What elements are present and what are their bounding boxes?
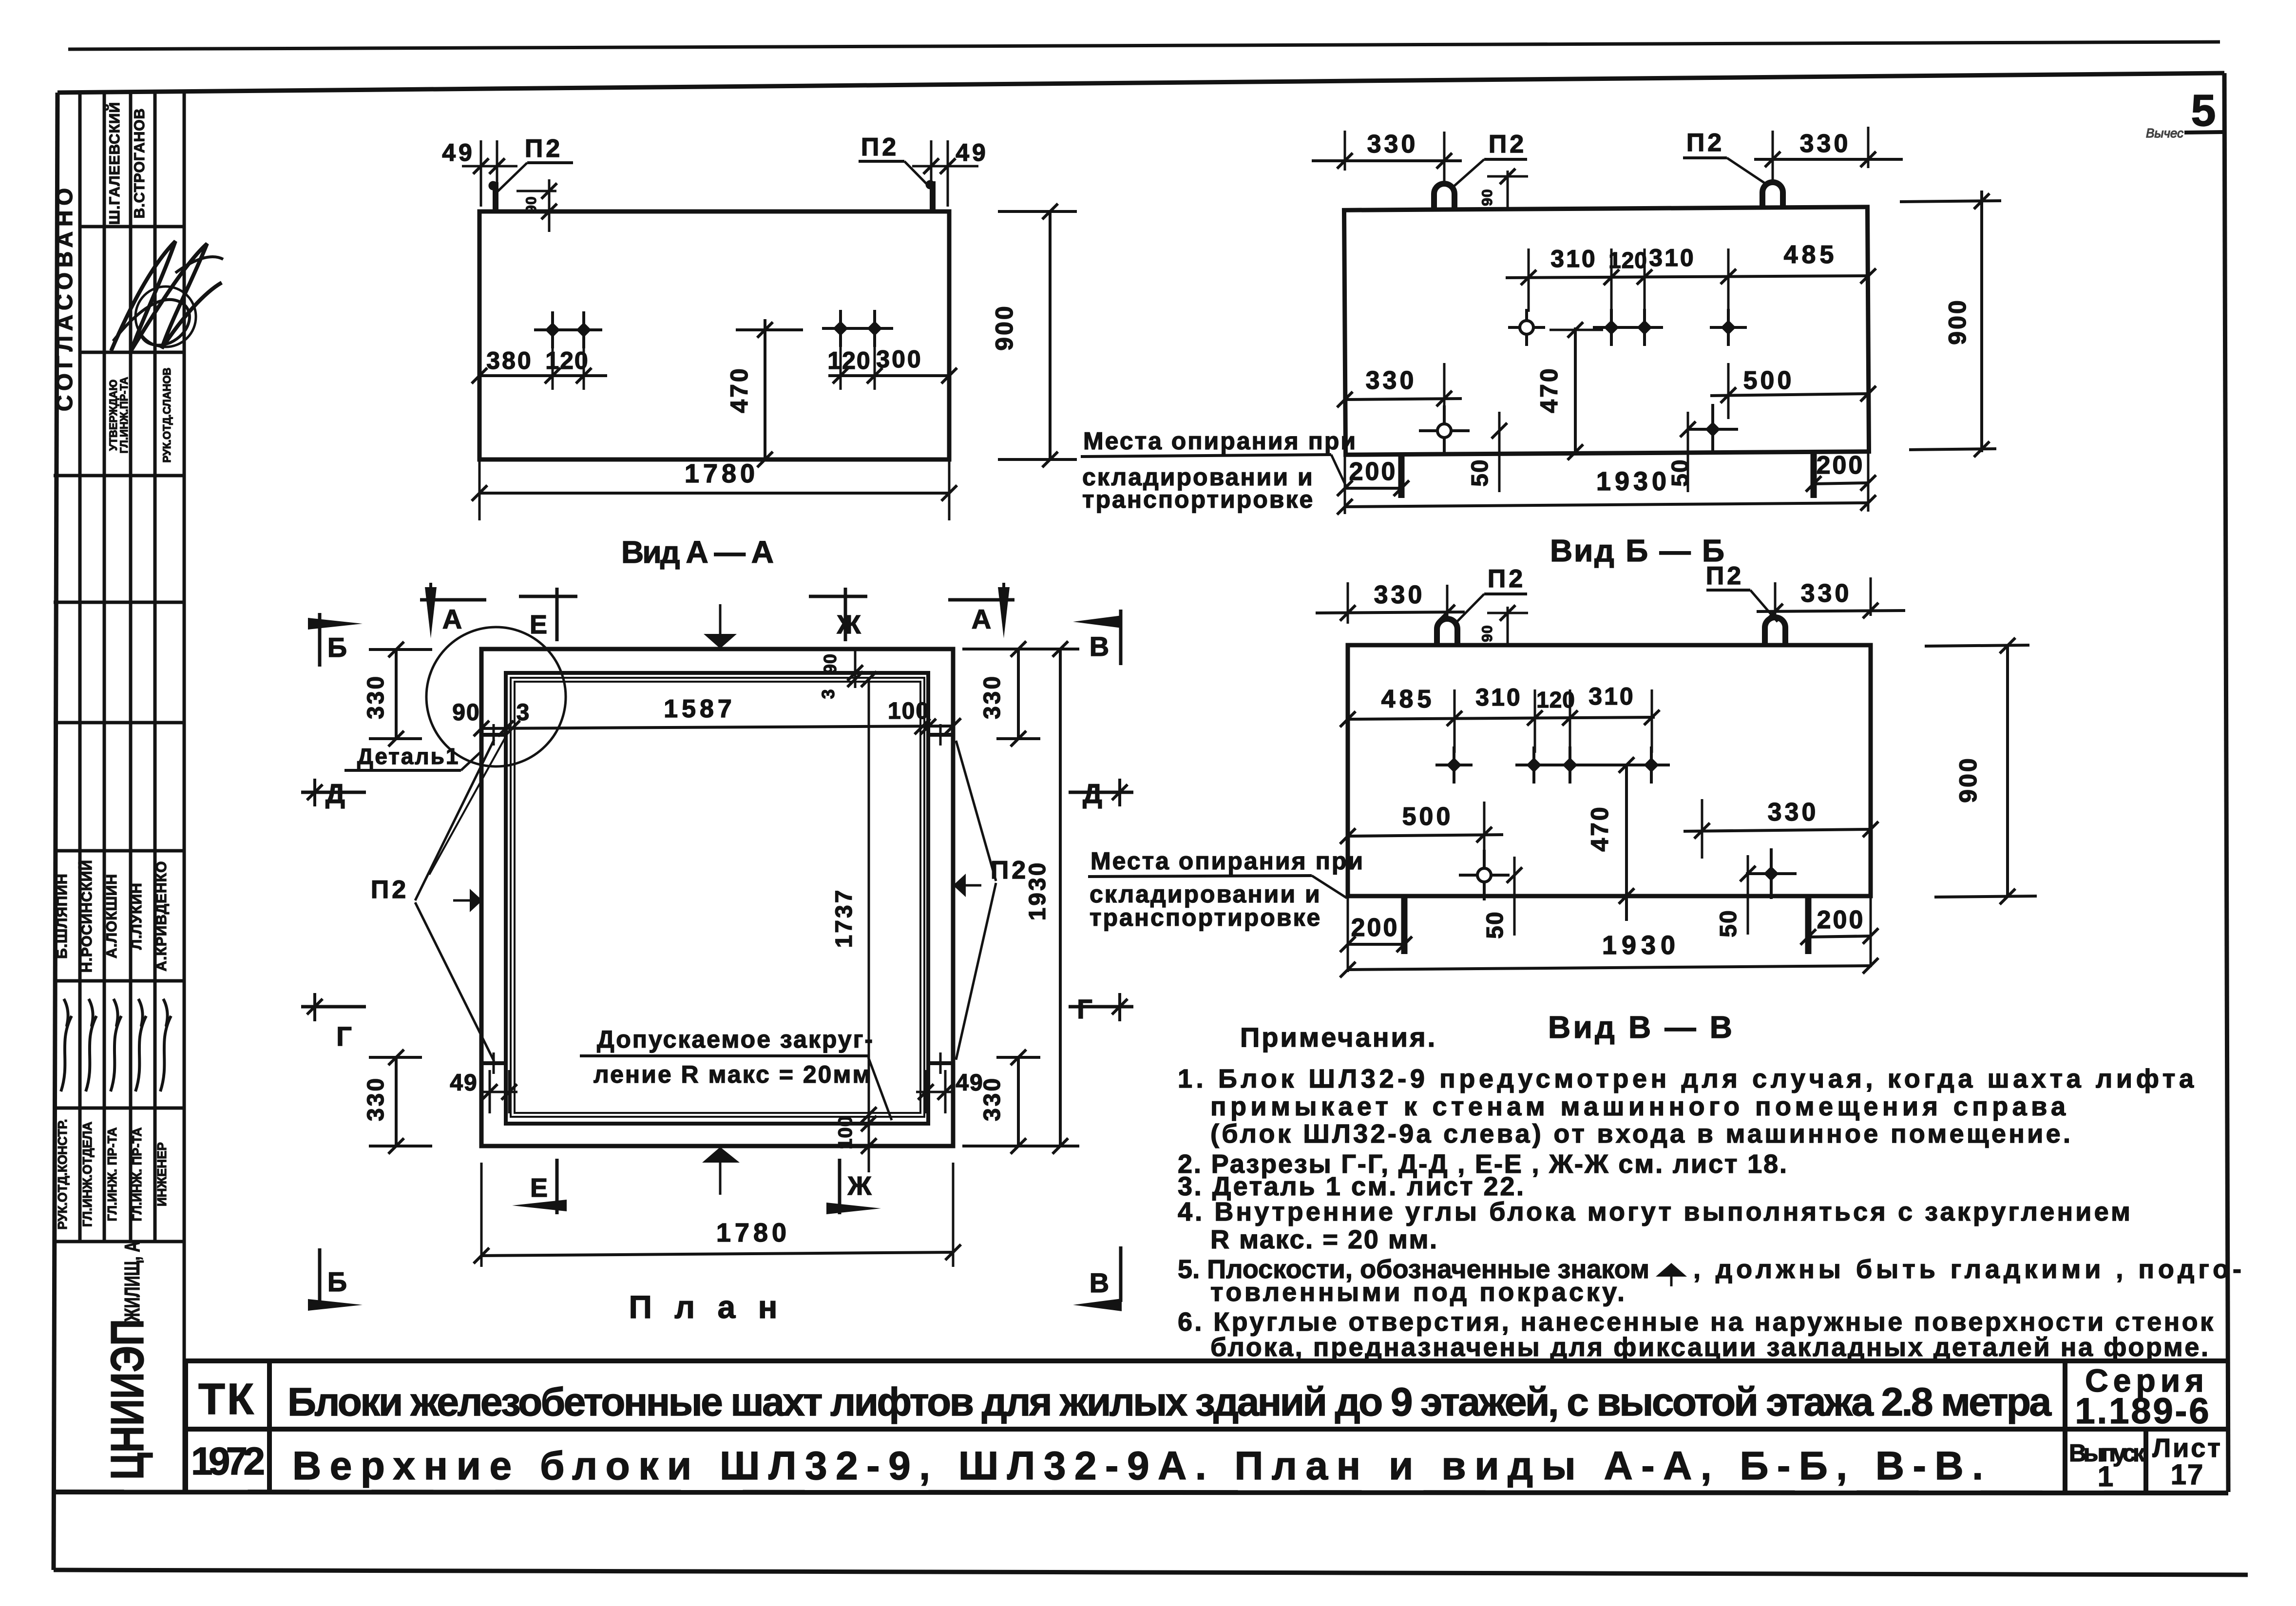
svg-text:470: 470 <box>726 366 753 413</box>
svg-text:100: 100 <box>888 698 930 724</box>
svg-text:П2: П2 <box>371 876 409 904</box>
В-В inner dim row 485/310/120/310 <box>1348 717 1655 719</box>
svg-text:500: 500 <box>1743 366 1795 395</box>
svg-text:310: 310 <box>1588 683 1635 710</box>
svg-text:200: 200 <box>1349 458 1397 486</box>
svg-text:ГЛ.ИНЖ. ПР-ТА: ГЛ.ИНЖ. ПР-ТА <box>105 1127 119 1221</box>
svg-text:1930: 1930 <box>1596 467 1670 496</box>
title block top line <box>186 1358 2228 1363</box>
В-В dim 330 top-right <box>1774 582 1777 616</box>
svg-text:Допускаемое закруг-: Допускаемое закруг- <box>597 1026 874 1053</box>
svg-text:120: 120 <box>545 347 589 374</box>
В-В dim 1930 bottom <box>1348 966 1871 970</box>
Б-Б dim 500 lower-right <box>1727 363 1730 419</box>
svg-text:470: 470 <box>1586 805 1613 851</box>
svg-text:А.КРИВДЕНКО: А.КРИВДЕНКО <box>153 861 170 972</box>
svg-text:Ж: Ж <box>847 1171 872 1201</box>
svg-text:ГЛ.ИНЖ. ПР-ТА: ГЛ.ИНЖ. ПР-ТА <box>130 1127 144 1221</box>
sheet bottom line <box>54 1570 2248 1575</box>
svg-text:РУК.ОТД.СЛАНОВ: РУК.ОТД.СЛАНОВ <box>161 368 173 463</box>
В-В support point left <box>1459 874 1510 877</box>
section mark В bottom-right <box>1119 1246 1123 1302</box>
svg-text:485: 485 <box>1784 241 1838 269</box>
svg-text:500: 500 <box>1402 803 1454 831</box>
frame left border <box>54 93 57 1570</box>
svg-text:200: 200 <box>1817 451 1865 479</box>
plan dim 1780 bottom <box>480 1163 483 1267</box>
В-В fixation crosses <box>1435 764 1473 766</box>
svg-text:300: 300 <box>876 345 922 373</box>
svg-text:3: 3 <box>818 688 838 699</box>
svg-text:330: 330 <box>1800 130 1851 158</box>
А-А fixation crosses left pair <box>534 328 571 331</box>
plan dim 330 left top <box>395 650 398 739</box>
В-В dim 900 right <box>2006 645 2009 896</box>
signature scribbles row <box>61 999 72 1091</box>
svg-text:П2: П2 <box>1706 562 1744 590</box>
svg-text:Деталь1: Деталь1 <box>357 744 460 769</box>
svg-text:Г: Г <box>336 1021 352 1052</box>
svg-text:ЦНИИЭП: ЦНИИЭП <box>101 1319 153 1480</box>
Б-Б support point left <box>1419 429 1470 432</box>
svg-text:Вычес: Вычес <box>2146 126 2183 140</box>
svg-text:Вид В — В: Вид В — В <box>1548 1010 1733 1045</box>
svg-text:310: 310 <box>1550 245 1597 272</box>
section mark Е bottom <box>555 1159 559 1214</box>
svg-text:1: 1 <box>2098 1461 2113 1492</box>
plan detail circle <box>426 627 566 766</box>
А-А lifting loop left <box>493 182 498 211</box>
svg-text:1972: 1972 <box>191 1439 265 1483</box>
svg-text:ГЛ.ИНЖ.ОТДЕЛА: ГЛ.ИНЖ.ОТДЕЛА <box>80 1122 95 1227</box>
А-А dim 900 right <box>1049 211 1052 459</box>
leader to liner corner <box>868 1057 892 1120</box>
svg-text:900: 900 <box>1954 756 1982 803</box>
В-В dim 330 right <box>1701 799 1703 859</box>
В-В dim 470 vertical <box>1625 765 1628 921</box>
svg-text:330: 330 <box>1366 366 1417 395</box>
svg-text:120: 120 <box>827 347 871 374</box>
Б-Б lifting loop right <box>1762 182 1783 207</box>
svg-text:ИНЖЕНЕР: ИНЖЕНЕР <box>154 1142 169 1206</box>
plan rotated dims 90/3 top right <box>854 649 857 688</box>
svg-text:товленными под покраску.: товленными под покраску. <box>1210 1278 1625 1307</box>
svg-text:330: 330 <box>1374 581 1425 609</box>
svg-text:П2: П2 <box>1488 565 1526 593</box>
Б-Б support point right <box>1687 428 1738 431</box>
section mark Б bottom-left <box>318 1248 322 1302</box>
svg-text:310: 310 <box>1649 244 1695 271</box>
svg-text:330: 330 <box>363 674 389 719</box>
leader to Б-Б corner <box>1331 455 1346 486</box>
В-В dim 50 left <box>1513 857 1516 936</box>
title block verticals <box>183 1361 188 1493</box>
svg-text:ление R макс = 20мм: ление R макс = 20мм <box>593 1061 872 1088</box>
Б-Б dim 330 top-left <box>1344 131 1346 171</box>
plan dim 49 bottom-right <box>916 1091 954 1093</box>
svg-text:Лист: Лист <box>2152 1434 2222 1463</box>
svg-text:120: 120 <box>1608 248 1647 273</box>
svg-text:1930: 1930 <box>1602 931 1680 960</box>
leader to В-В corner <box>1312 876 1347 898</box>
stamp signature scribbles <box>111 241 222 351</box>
А-А dim 470 vertical <box>764 319 766 459</box>
svg-text:П2: П2 <box>861 133 899 161</box>
svg-text:Блоки железобетонные шахт лифт: Блоки железобетонные шахт лифтов для жил… <box>287 1380 2052 1424</box>
svg-text:Е: Е <box>530 610 547 639</box>
Б-Б dim 330 lower-left <box>1443 363 1446 424</box>
svg-text:транспортировке: транспортировке <box>1090 904 1321 931</box>
В-В dim 200 right <box>1805 896 1812 954</box>
svg-text:49: 49 <box>450 1070 478 1096</box>
В-В lifting loop right <box>1765 617 1785 644</box>
Б-Б dim 50 left <box>1498 412 1501 492</box>
svg-text:Н.РОСИНСКИЙ: Н.РОСИНСКИЙ <box>78 860 95 973</box>
svg-text:17: 17 <box>2171 1459 2204 1491</box>
svg-text:1737: 1737 <box>831 888 857 948</box>
svg-text:330: 330 <box>1367 130 1418 158</box>
note 5 triangle glyph and tail <box>1656 1263 1687 1277</box>
leader П2 upper-left corner <box>429 735 507 875</box>
view А-А outline <box>479 211 949 459</box>
В-В dim 330 top-left <box>1347 582 1349 624</box>
plan surface mark triangle left <box>453 899 470 902</box>
svg-text:1780: 1780 <box>685 459 759 488</box>
Б-Б lifting loop left <box>1434 184 1454 209</box>
svg-text:485: 485 <box>1381 685 1435 713</box>
section mark Ж top <box>844 588 847 641</box>
plan outer square <box>481 649 953 1146</box>
svg-text:транспортировке: транспортировке <box>1082 486 1314 513</box>
svg-text:Б: Б <box>327 1266 347 1297</box>
svg-text:П2: П2 <box>1686 129 1724 157</box>
А-А dim 49 left <box>480 140 482 207</box>
plan inner wall face <box>506 673 928 1124</box>
plan loop marks on walls <box>481 733 506 737</box>
svg-text:Д: Д <box>1083 778 1102 809</box>
svg-text:900: 900 <box>1944 298 1971 344</box>
section mark Д left <box>301 791 366 794</box>
plan dim 1930 right <box>1059 649 1062 1146</box>
Б-Б dim 200 left <box>1398 453 1405 498</box>
svg-text:3: 3 <box>517 700 531 726</box>
В-В dim 50 right <box>1747 855 1749 935</box>
Б-Б inner dim row 310/120/310/485 <box>1506 276 1868 278</box>
title block middle line <box>186 1427 2228 1432</box>
А-А fixation crosses right pair <box>822 327 859 330</box>
svg-text:330: 330 <box>363 1076 389 1121</box>
svg-text:Ш.ГАЛЕЕВСКИЙ: Ш.ГАЛЕЕВСКИЙ <box>106 102 123 225</box>
left stamp strip verticals <box>78 93 82 1242</box>
svg-text:В: В <box>1090 1267 1109 1298</box>
svg-text:49: 49 <box>956 139 989 166</box>
plan liner contour inner line <box>515 682 920 1113</box>
svg-text:380: 380 <box>486 347 533 374</box>
Б-Б dim 900 right <box>1980 191 1983 452</box>
svg-text:6. Круглые отверстия, нанесе: 6. Круглые отверстия, нанесенные на нару… <box>1178 1307 2214 1337</box>
svg-text:49: 49 <box>442 139 475 166</box>
section mark Б top-left <box>318 613 322 667</box>
svg-text:СОГЛАСОВАНО: СОГЛАСОВАНО <box>52 183 77 411</box>
svg-text:5: 5 <box>2191 86 2216 135</box>
Б-Б dim 200 right <box>1811 452 1817 498</box>
svg-text:Б: Б <box>327 632 347 663</box>
svg-text:90: 90 <box>523 196 539 213</box>
section mark Г left <box>301 1005 366 1009</box>
svg-text:Примечания.: Примечания. <box>1240 1022 1437 1052</box>
svg-text:49: 49 <box>956 1070 983 1096</box>
svg-text:примыкает к стенам машинног: примыкает к стенам машинного помещения с… <box>1210 1092 2066 1121</box>
section mark Ж bottom <box>838 1159 842 1214</box>
svg-text:Б.ШЛЯПИН: Б.ШЛЯПИН <box>54 873 70 958</box>
svg-text:Л.ЛУКИН: Л.ЛУКИН <box>129 882 145 950</box>
svg-text:ЖИЛИЩ, А: ЖИЛИЩ, А <box>120 1242 144 1322</box>
plan top dim line 90/3/1587/100 <box>481 726 953 728</box>
svg-text:200: 200 <box>1817 906 1865 934</box>
А-А dim line 120/300 <box>828 374 949 377</box>
svg-text:РУК.ОТД.КОНСТР.: РУК.ОТД.КОНСТР. <box>55 1119 70 1229</box>
svg-text:90: 90 <box>1479 189 1495 206</box>
Б-Б dim 330 top-right <box>1772 131 1774 180</box>
svg-text:Вид А — А: Вид А — А <box>621 535 775 570</box>
Б-Б dim 470 vertical <box>1574 327 1577 453</box>
svg-text:90: 90 <box>1479 625 1495 642</box>
section mark Е top <box>555 588 559 641</box>
svg-text:50: 50 <box>1667 459 1693 486</box>
svg-text:ГЛ.ИНЖ.ПР-ТА: ГЛ.ИНЖ.ПР-ТА <box>118 377 130 453</box>
svg-text:Е: Е <box>530 1173 548 1203</box>
svg-text:330: 330 <box>1768 798 1819 826</box>
svg-text:1. Блок ШЛ32-9 предусмотр: 1. Блок ШЛ32-9 предусмотрен для случая, … <box>1178 1064 2194 1093</box>
svg-text:1587: 1587 <box>664 695 736 723</box>
svg-text:Ж: Ж <box>837 610 861 639</box>
svg-text:1780: 1780 <box>716 1218 790 1247</box>
section mark В top-right <box>1119 610 1123 665</box>
svg-text:Д: Д <box>325 778 345 809</box>
Б-Б dim 50 right <box>1687 412 1689 492</box>
svg-text:50: 50 <box>1482 911 1508 938</box>
svg-text:Г: Г <box>1077 994 1092 1024</box>
svg-text:(блок ШЛ32-9а слева) от входа: (блок ШЛ32-9а слева) от входа в машинное… <box>1210 1119 2070 1148</box>
В-В support point right <box>1746 872 1797 875</box>
Б-Б fixation crosses <box>1508 326 1545 329</box>
section mark Д right <box>1069 791 1133 794</box>
plan dim 49 bottom-left <box>481 1091 517 1093</box>
svg-text:П2: П2 <box>1489 130 1527 158</box>
svg-text:470: 470 <box>1535 366 1563 413</box>
section mark А top (down arrow) <box>420 598 486 602</box>
svg-text:В: В <box>1090 631 1109 662</box>
В-В dim 90 rotated left <box>1507 607 1509 645</box>
svg-text:900: 900 <box>991 304 1018 350</box>
section mark Г right <box>1069 1005 1133 1009</box>
svg-text:50: 50 <box>1716 909 1741 937</box>
svg-text:А: А <box>442 604 462 634</box>
svg-text:П л а н: П л а н <box>629 1289 784 1325</box>
plan dim 330 left bottom <box>395 1057 398 1146</box>
plan liner contour outer line <box>511 678 924 1117</box>
svg-text:А.ЛОКШИН: А.ЛОКШИН <box>104 874 120 958</box>
svg-text:330: 330 <box>979 674 1005 719</box>
sheet top trim line <box>68 42 2220 49</box>
svg-text:В.СТРОГАНОВ: В.СТРОГАНОВ <box>132 108 148 219</box>
frame right border <box>2224 73 2228 1492</box>
svg-text:ТК: ТК <box>198 1375 256 1424</box>
svg-text:блока, предназначены для фик: блока, предназначены для фиксации заклад… <box>1210 1333 2208 1362</box>
svg-text:А: А <box>972 604 991 634</box>
svg-text:Вид Б — Б: Вид Б — Б <box>1550 533 1725 568</box>
svg-text:310: 310 <box>1475 684 1522 711</box>
svg-text:120: 120 <box>1536 687 1575 712</box>
А-А dim 1780 bottom <box>478 459 481 520</box>
А-А lifting loop right <box>930 181 936 211</box>
А-А dim 90 left rotated <box>517 190 556 192</box>
В-В dim 500 left <box>1483 802 1486 872</box>
svg-text:50: 50 <box>1467 459 1493 486</box>
section mark А top-right (down arrow) <box>948 598 1014 602</box>
svg-text:90: 90 <box>452 700 480 726</box>
svg-text:330: 330 <box>1801 579 1852 608</box>
plan dim 330 right bottom <box>1017 1057 1020 1146</box>
plan dim 330 right top <box>1017 649 1020 739</box>
Б-Б dim 90 rotated left <box>1507 171 1509 209</box>
left stamp strip horizontals <box>80 225 184 229</box>
svg-text:П2: П2 <box>525 134 563 163</box>
svg-text:R макс. = 20 мм.: R макс. = 20 мм. <box>1210 1225 1437 1254</box>
plan surface mark triangle bottom <box>702 1147 740 1163</box>
title block bottom line <box>54 1492 2228 1493</box>
А-А dim 49 right <box>930 140 933 191</box>
view Б-Б outline <box>1344 207 1869 455</box>
Б-Б dim 1930 bottom <box>1345 503 1868 507</box>
В-В lifting loop left <box>1437 619 1457 645</box>
frame top border <box>57 73 2224 93</box>
plan surface mark triangle right <box>953 874 966 897</box>
plan surface mark triangle top <box>719 604 722 634</box>
svg-text:Места опирания при: Места опирания при <box>1091 847 1364 875</box>
view В-В outline <box>1348 645 1871 896</box>
svg-text:1.189-6: 1.189-6 <box>2075 1391 2211 1431</box>
А-А dim line 380/120 <box>479 374 607 377</box>
В-В dim 200 left <box>1401 896 1408 954</box>
svg-text:Места опирания при: Места опирания при <box>1083 427 1357 455</box>
svg-text:Верхние блоки ШЛ32-9, ШЛ32-9А.: Верхние блоки ШЛ32-9, ШЛ32-9А. План и ви… <box>292 1444 1983 1488</box>
plan vertical dim 1737/100 right <box>868 679 870 1172</box>
svg-text:100: 100 <box>835 1115 856 1149</box>
svg-text:200: 200 <box>1351 914 1399 942</box>
svg-text:90: 90 <box>820 653 840 674</box>
